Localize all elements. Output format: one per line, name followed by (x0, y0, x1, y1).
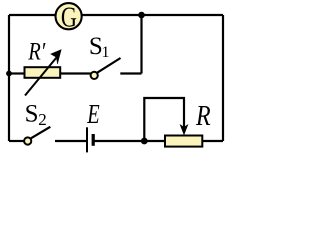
switch S1 pivot (91, 72, 98, 79)
wire: left vertical (8, 15, 10, 141)
svg-text:1: 1 (102, 44, 110, 61)
svg-text:2: 2 (38, 110, 47, 129)
node: bottom junction left of R (141, 138, 148, 145)
svg-text:E: E (86, 99, 99, 130)
switch S1 blade (97, 58, 120, 73)
wire: right vertical (222, 15, 224, 141)
svg-text:S: S (25, 101, 39, 128)
rheostat R' arrow shaft (25, 58, 57, 96)
wire: middle, S1 contact segment (120, 72, 141, 74)
resistor R box (165, 136, 202, 147)
svg-text:R′: R′ (27, 37, 46, 66)
wire: top left segment to galvanometer (9, 14, 56, 16)
galvanometer G (56, 3, 82, 29)
node: top junction (138, 12, 145, 19)
wire: middle, left to rheostat R' (9, 72, 25, 74)
wire: wiper loop of R (up, across, down) (144, 98, 184, 141)
svg-text:R: R (195, 100, 211, 131)
rheostat R' box (25, 67, 61, 78)
switch S2 blade (31, 127, 50, 139)
node: left middle junction (6, 71, 12, 77)
wire: bottom, S2 contact to battery (55, 140, 86, 142)
battery E long plate (86, 127, 88, 152)
wire: vertical from S1 contact up to top junction (140, 15, 142, 74)
battery E short plate (92, 134, 95, 146)
wire: bottom, resistor R to right corner (203, 140, 224, 142)
wiper arrowhead into R (180, 125, 188, 135)
wire: bottom, left of S2 (9, 140, 24, 142)
switch S2 pivot (24, 137, 31, 144)
wire: middle, rheostat R' to S1 pivot (60, 72, 90, 74)
rheostat R' arrowhead (51, 50, 62, 65)
svg-text:G: G (61, 1, 77, 33)
wire: bottom, battery to resistor R (94, 140, 165, 142)
wire: top right segment from galvanometer to right corner (82, 14, 224, 16)
